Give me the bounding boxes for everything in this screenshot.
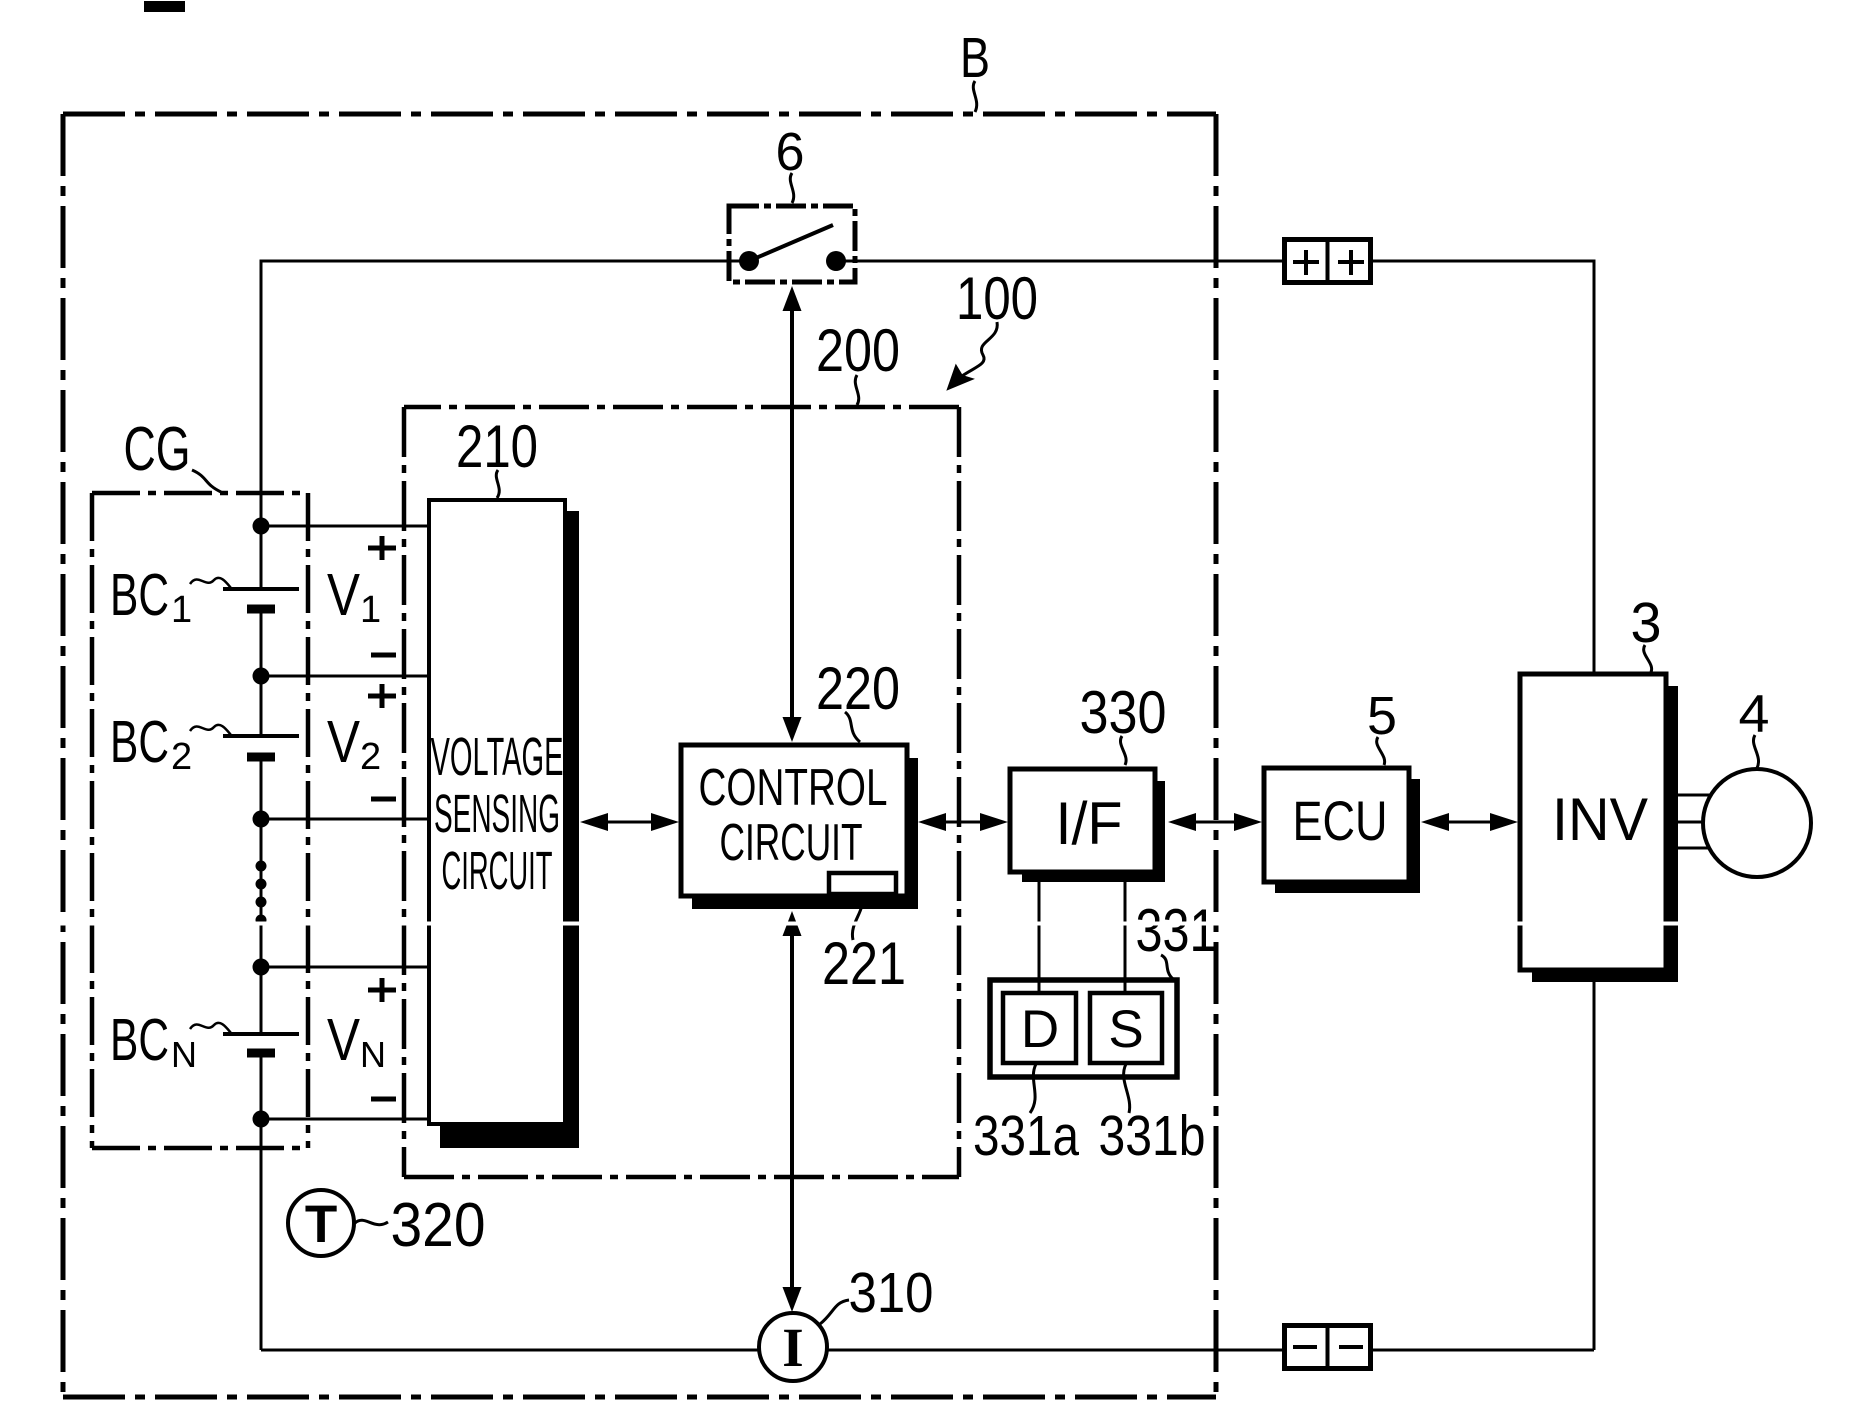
- svg-text:2: 2: [360, 736, 381, 778]
- motor 4 (circle): [1703, 769, 1811, 877]
- main switch 6 (dash-dot box): [729, 206, 855, 282]
- svg-text:N: N: [171, 1034, 197, 1075]
- leader squiggle from label CG to box CG: [192, 470, 221, 492]
- wire: sense line V1-/V2+: [261, 675, 429, 678]
- connector wire I/F to D: [1038, 874, 1041, 995]
- leader squiggle from label B to box B: [973, 81, 976, 112]
- svg-text:CG: CG: [124, 415, 191, 484]
- wire stubs inside 331: [1038, 980, 1041, 995]
- wire: sense line VN+: [261, 966, 429, 969]
- svg-text:331b: 331b: [1099, 1104, 1206, 1168]
- leader squiggle from label 6 to switch: [790, 173, 793, 203]
- memory element 221 (small rect inside control circuit): [829, 873, 896, 894]
- svg-text:BC: BC: [110, 562, 169, 628]
- svg-text:V: V: [327, 1007, 361, 1073]
- leader squiggle BCN: [190, 1023, 231, 1033]
- ECU 5: shadow: [1275, 779, 1420, 893]
- battery management apparatus box 200 (dash-dot): [404, 407, 959, 1177]
- voltage sensing circuit 210: box: [429, 500, 565, 1124]
- leader squiggle from 331: [1161, 955, 1173, 979]
- cell group box CG (dash-dot): [92, 493, 308, 1148]
- arrow: control circuit to current sensor (double headed vertical): [790, 925, 794, 1298]
- svg-text:221: 221: [822, 930, 906, 997]
- svg-text:331: 331: [1136, 897, 1217, 964]
- wire: sense line V1+: [261, 525, 429, 528]
- leader squiggle BC1: [190, 578, 231, 588]
- svg-text:3: 3: [1631, 591, 1662, 655]
- svg-text:100: 100: [956, 265, 1038, 332]
- interface I/F 330: shadow: [1022, 781, 1165, 882]
- leader squiggle from 330: [1120, 736, 1126, 765]
- node: junction dot 1: [253, 518, 270, 535]
- svg-text:310: 310: [849, 1261, 934, 1325]
- terminal S 331b: [1090, 993, 1162, 1063]
- leader squiggle from 4 to motor: [1753, 735, 1758, 768]
- svg-text:5: 5: [1367, 686, 1397, 746]
- control circuit 220: shadow: [692, 758, 918, 909]
- svg-text:200: 200: [816, 317, 900, 384]
- svg-text:T: T: [305, 1195, 337, 1254]
- leader squiggle from 5: [1377, 737, 1385, 765]
- scan artifact: white line across page: [0, 922, 1875, 926]
- FIG label fragment (top-left bar): [144, 1, 185, 12]
- leader squiggle from 331a to D: [1030, 1064, 1036, 1113]
- svg-text:6: 6: [776, 122, 805, 182]
- svg-text:320: 320: [391, 1191, 486, 1260]
- svg-text:S: S: [1108, 1000, 1143, 1059]
- svg-text:330: 330: [1080, 679, 1167, 746]
- battery cell BC1: [250, 591, 272, 607]
- svg-text:220: 220: [816, 655, 900, 722]
- switch arm: [749, 225, 833, 261]
- svg-text:1: 1: [171, 589, 192, 631]
- battery cell BCN: [250, 1036, 272, 1051]
- node: junction dot 5: [253, 1111, 270, 1128]
- svg-text:SENSING: SENSING: [434, 784, 560, 844]
- temperature sensor T 320: [288, 1190, 354, 1256]
- terminal D 331a: [1003, 993, 1076, 1063]
- wire: positive rail from battery top-left corner to switch left contact: [261, 261, 749, 1350]
- arrow: control circuit to I/F (double headed): [930, 821, 996, 824]
- arrow: I/F to ECU (double headed, crosses boundary B): [1180, 821, 1250, 824]
- svg-text:ECU: ECU: [1293, 789, 1388, 852]
- svg-text:2: 2: [171, 736, 192, 778]
- wire: sense line VN-: [261, 1118, 429, 1121]
- leader squiggle from 310 to I: [820, 1300, 849, 1324]
- arrow: switch to control circuit (double headed vertical): [790, 300, 794, 728]
- inverter INV 3: shadow: [1532, 686, 1678, 982]
- control circuit 220: box: [681, 745, 907, 896]
- svg-text:CONTROL: CONTROL: [699, 759, 888, 817]
- svg-text:B: B: [960, 26, 990, 90]
- arrow: ECU to INV (double headed): [1433, 821, 1506, 824]
- interface I/F 330: box: [1010, 769, 1155, 872]
- negative terminal pair: [1285, 1326, 1371, 1369]
- leader squiggle from T to 320: [355, 1220, 388, 1224]
- svg-text:I/F: I/F: [1056, 790, 1123, 857]
- arrow: VSC to control circuit (double headed): [592, 821, 668, 824]
- wire: positive rail from switch right contact to right loop, down to INV: [836, 261, 1594, 1350]
- battery cell BC2: [250, 738, 272, 754]
- ellipsis dots between BC2 and BCN: [256, 861, 267, 872]
- ECU 5: box: [1264, 768, 1409, 882]
- positive terminal pair: [1285, 240, 1371, 283]
- svg-text:INV: INV: [1552, 786, 1648, 853]
- leader squiggle BC2: [190, 725, 231, 735]
- svg-text:BC: BC: [110, 1007, 169, 1073]
- leader squiggle from label 200 to box 200: [855, 375, 858, 405]
- svg-text:CIRCUIT: CIRCUIT: [442, 841, 553, 901]
- battery system boundary box B (dash-dot): [63, 114, 1216, 1397]
- wire: sense line V2-: [261, 818, 429, 821]
- leader squiggle from 210: [496, 470, 499, 498]
- svg-text:CIRCUIT: CIRCUIT: [720, 814, 863, 872]
- node: junction dot 3: [253, 811, 270, 828]
- connector block 331 (outer box): [990, 980, 1177, 1077]
- leader squiggle from 220: [845, 712, 860, 742]
- svg-text:I: I: [782, 1317, 803, 1378]
- svg-text:V: V: [327, 709, 361, 775]
- inverter INV 3: box: [1520, 674, 1666, 970]
- svg-text:N: N: [360, 1034, 386, 1075]
- svg-text:V: V: [327, 562, 361, 628]
- switch left contact: [739, 251, 759, 271]
- svg-text:1: 1: [360, 589, 381, 631]
- connector wire I/F to S: [1124, 874, 1127, 995]
- wire: negative bottom rail: [261, 1349, 1594, 1352]
- svg-text:D: D: [1021, 1000, 1059, 1059]
- leader squiggle from 221: [852, 896, 862, 940]
- leader squiggle from 331b to S: [1124, 1064, 1130, 1113]
- svg-text:331a: 331a: [973, 1104, 1079, 1168]
- leader squiggle from 3: [1644, 645, 1652, 672]
- motor phase wires INV to motor: [1678, 794, 1714, 797]
- node: junction dot 4: [253, 959, 270, 976]
- svg-text:BC: BC: [110, 709, 169, 775]
- voltage sensing circuit 210: shadow: [440, 511, 579, 1148]
- current sensor I 310 (circle on bottom rail): [759, 1313, 827, 1381]
- svg-text:VOLTAGE: VOLTAGE: [431, 727, 564, 787]
- node: junction dot 2: [253, 668, 270, 685]
- switch right contact: [826, 251, 846, 271]
